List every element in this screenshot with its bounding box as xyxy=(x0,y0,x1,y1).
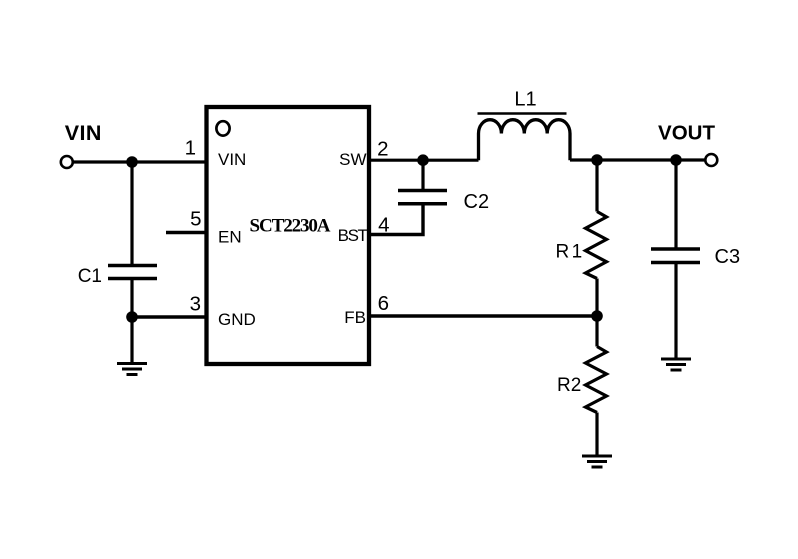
svg-text:6: 6 xyxy=(378,292,389,315)
resistor R1 xyxy=(586,212,607,279)
svg-text:L1: L1 xyxy=(514,89,536,111)
wire SW node down to C2 xyxy=(421,160,424,190)
svg-text:2: 2 xyxy=(377,138,388,161)
svg-text:GND: GND xyxy=(218,310,256,329)
wire junction down to C1 top plate xyxy=(130,162,133,265)
pin 1 indicator circle xyxy=(216,121,229,135)
svg-text:3: 3 xyxy=(190,293,201,316)
wire SW pin to L1 xyxy=(369,159,479,162)
wire FB node down to R2 xyxy=(595,316,598,347)
inductor L1 core bar xyxy=(478,112,567,115)
svg-text:C3: C3 xyxy=(715,246,741,268)
resistor R2 xyxy=(586,347,607,413)
capacitor C3 xyxy=(651,249,700,263)
svg-text:C2: C2 xyxy=(464,191,490,213)
node junction FB/R1/R2 xyxy=(591,310,603,322)
wire C2 bottom to BST corner xyxy=(369,204,423,235)
svg-text:1: 1 xyxy=(185,137,196,160)
capacitor C1 xyxy=(108,266,157,279)
node junction C1/GND xyxy=(126,311,138,323)
capacitor C2 xyxy=(398,191,447,204)
wire R2 to ground xyxy=(595,413,598,457)
wire VOUT node down to R1 xyxy=(595,160,598,212)
svg-text:SW: SW xyxy=(339,150,366,169)
wire C1 bottom plate to ground node xyxy=(130,279,133,318)
op-amp U1 SCT2230A (IC body) xyxy=(207,107,370,364)
inductor L1 xyxy=(479,120,571,161)
node junction VOUT/R1 xyxy=(591,154,603,166)
wire FB pin to divider node xyxy=(369,314,597,317)
svg-text:C1: C1 xyxy=(78,266,102,287)
svg-text:VIN: VIN xyxy=(218,150,246,169)
wire GND node to IC pin 3 xyxy=(132,315,205,318)
node junction C1/VIN xyxy=(126,156,138,168)
node junction VOUT/C3 xyxy=(670,154,682,166)
svg-text:EN: EN xyxy=(218,228,242,247)
svg-text:SCT2230A: SCT2230A xyxy=(250,216,331,237)
svg-text:FB: FB xyxy=(344,308,366,327)
node junction SW/C2 xyxy=(417,154,429,166)
wire VOUT node down to C3 xyxy=(674,160,677,249)
wire L1 to VOUT terminal xyxy=(570,158,706,161)
terminal VOUT (open circle) xyxy=(705,154,717,166)
wire C3 to ground xyxy=(674,263,677,360)
ground (below R2) xyxy=(582,456,612,467)
svg-text:VOUT: VOUT xyxy=(658,122,715,145)
svg-text:BST: BST xyxy=(338,226,368,245)
wire VIN terminal to IC pin 1 xyxy=(73,160,205,163)
wire EN stub xyxy=(166,231,205,234)
svg-text:5: 5 xyxy=(190,208,201,231)
svg-text:R2: R2 xyxy=(557,375,581,396)
svg-text:VIN: VIN xyxy=(65,121,102,145)
terminal VIN (open circle) xyxy=(61,156,73,168)
svg-text:R1: R1 xyxy=(556,242,585,263)
wire R1 to FB node xyxy=(595,279,598,317)
ground (below C3) xyxy=(661,359,691,370)
ground (below C1) xyxy=(117,317,147,375)
